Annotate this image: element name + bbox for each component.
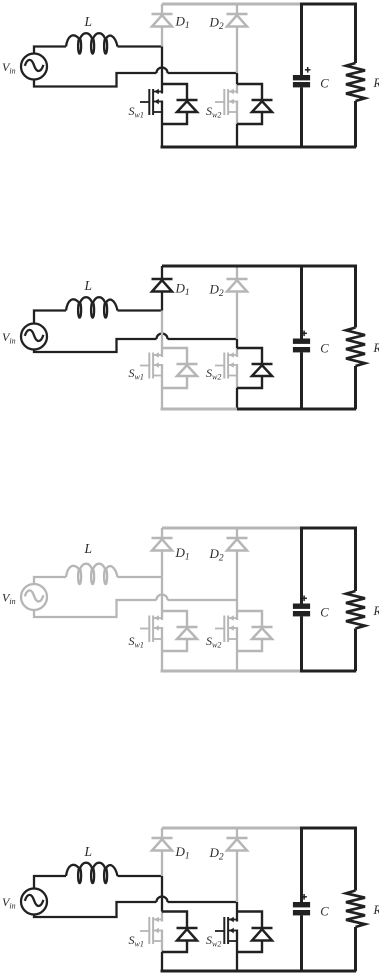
capacitor C (electrolytic) bbox=[293, 528, 310, 671]
diode D2 bbox=[227, 266, 248, 339]
wire: Sw1 source lead bbox=[161, 952, 163, 971]
svg-text:Vin: Vin bbox=[2, 330, 16, 346]
wire: inductor to node A bbox=[118, 576, 164, 578]
wire: crossover hop over Sw1 branch bbox=[157, 595, 168, 601]
wire: top rail capacitor node to load bbox=[300, 3, 357, 6]
diode D1 bbox=[152, 4, 173, 47]
wire: crossover hop over Sw1 branch bbox=[157, 334, 168, 340]
wire: bottom rail capacitor node to load bbox=[300, 408, 356, 411]
inductor L bbox=[66, 863, 118, 883]
wire: hop to node B bbox=[168, 901, 238, 903]
svg-text:C: C bbox=[320, 606, 329, 620]
label R bbox=[373, 903, 379, 917]
label D2 bbox=[209, 282, 224, 300]
diode D2 bbox=[227, 828, 248, 902]
inductor L bbox=[66, 297, 118, 317]
wire: top rail D1 to D2 bbox=[162, 265, 237, 268]
wire: Sw1 source lead bbox=[161, 388, 163, 409]
wire: top rail capacitor node to load bbox=[300, 527, 357, 530]
svg-text:Sw1: Sw1 bbox=[129, 634, 144, 650]
wire: source bottom with step bbox=[34, 600, 157, 617]
wire: inductor to node A bbox=[118, 875, 164, 877]
label L bbox=[84, 14, 93, 29]
wire: top rail D2 to capacitor node bbox=[237, 3, 302, 6]
label Vin bbox=[2, 895, 16, 911]
AC source Vin bbox=[21, 584, 47, 610]
label L bbox=[84, 844, 93, 859]
svg-text:D2: D2 bbox=[209, 546, 224, 564]
body diode of Sw2 bbox=[237, 348, 273, 388]
svg-text:D1: D1 bbox=[175, 545, 190, 563]
svg-text:C: C bbox=[320, 77, 329, 91]
resistor R (load) bbox=[346, 4, 365, 147]
capacitor C (electrolytic) bbox=[293, 266, 310, 409]
label D2 bbox=[209, 845, 224, 863]
wire: bottom rail Sw2 to capacitor node bbox=[237, 408, 302, 411]
wire: source bottom with step bbox=[34, 902, 157, 917]
wire: hop to node B bbox=[168, 599, 238, 601]
wire: source top to inductor bbox=[34, 47, 66, 54]
label L bbox=[84, 541, 93, 556]
wire: bottom rail Sw1 to Sw2 bbox=[161, 408, 238, 411]
wire: bottom rail Sw1 to Sw2 bbox=[161, 670, 238, 673]
diode D1 bbox=[152, 266, 173, 311]
wire: source top to inductor bbox=[34, 876, 66, 889]
svg-text:D1: D1 bbox=[175, 14, 190, 32]
wire: hop to node B bbox=[168, 338, 238, 340]
label L bbox=[84, 278, 93, 293]
label R bbox=[373, 341, 379, 355]
resistor R (load) bbox=[346, 266, 365, 409]
wire: Sw2 source lead bbox=[236, 651, 238, 671]
svg-text:C: C bbox=[320, 342, 329, 356]
wire: hop to node B bbox=[168, 72, 238, 74]
wire: Sw2 source lead bbox=[236, 388, 238, 409]
wire: bottom rail Sw1 to Sw2 bbox=[161, 146, 238, 149]
wire: top rail D2 to capacitor node bbox=[237, 527, 302, 530]
label D2 bbox=[209, 546, 224, 564]
diode D1 bbox=[152, 528, 173, 577]
label Vin bbox=[2, 591, 16, 607]
label Sw1 bbox=[129, 634, 144, 650]
wire: bottom rail capacitor node to load bbox=[300, 670, 356, 673]
diode D2 bbox=[227, 528, 248, 600]
wire: inductor to node A bbox=[118, 309, 164, 311]
wire: source bottom with step bbox=[34, 339, 157, 352]
label D1 bbox=[175, 281, 190, 299]
transistor Sw2 (MOSFET) bbox=[215, 348, 237, 388]
svg-text:Sw1: Sw1 bbox=[129, 104, 144, 120]
wire: bottom rail Sw1 to Sw2 bbox=[161, 970, 238, 973]
resistor R (load) bbox=[346, 828, 365, 971]
svg-text:D2: D2 bbox=[209, 282, 224, 300]
capacitor C (electrolytic) bbox=[293, 4, 310, 147]
wire: Sw1 source lead bbox=[161, 124, 163, 147]
body diode of Sw2 bbox=[237, 912, 273, 953]
label Sw1 bbox=[129, 933, 144, 949]
wire: top rail D2 to capacitor node bbox=[237, 265, 302, 268]
label Sw1 bbox=[129, 104, 144, 120]
label D1 bbox=[175, 545, 190, 563]
svg-text:L: L bbox=[84, 844, 93, 859]
wire: Sw2 drain lead bbox=[236, 902, 238, 912]
wire: Sw2 drain lead bbox=[236, 339, 238, 348]
polarity plus sign of C bbox=[305, 67, 311, 73]
svg-text:R: R bbox=[373, 903, 379, 917]
svg-text:R: R bbox=[373, 604, 379, 618]
wire: bottom rail Sw2 to capacitor node bbox=[237, 670, 302, 673]
svg-text:L: L bbox=[84, 14, 93, 29]
wire: Sw2 source lead bbox=[236, 124, 238, 147]
transistor Sw2 (MOSFET) bbox=[215, 912, 237, 953]
wire: bottom rail capacitor node to load bbox=[300, 146, 356, 149]
diode D2 bbox=[227, 4, 248, 73]
svg-text:Sw1: Sw1 bbox=[129, 933, 144, 949]
label Sw2 bbox=[206, 104, 221, 120]
svg-text:Sw2: Sw2 bbox=[206, 634, 221, 650]
transistor Sw1 (MOSFET) bbox=[140, 348, 162, 388]
resistor R (load) bbox=[346, 528, 365, 671]
body diode of Sw1 bbox=[162, 348, 198, 388]
wire: top rail D1 to D2 bbox=[162, 3, 237, 6]
label Sw2 bbox=[206, 933, 221, 949]
transistor Sw1 (MOSFET) bbox=[140, 84, 162, 124]
wire: top rail capacitor node to load bbox=[300, 265, 357, 268]
svg-text:D1: D1 bbox=[175, 281, 190, 299]
transistor Sw1 (MOSFET) bbox=[140, 611, 162, 651]
wire: Sw1 drain lead bbox=[161, 577, 163, 611]
svg-text:Vin: Vin bbox=[2, 895, 16, 911]
label R bbox=[373, 76, 379, 90]
wire: top rail D1 to D2 bbox=[162, 827, 237, 830]
wire: source bottom with step bbox=[34, 73, 157, 87]
wire: Sw1 source lead bbox=[161, 651, 163, 671]
body diode of Sw1 bbox=[162, 84, 198, 124]
body diode of Sw1 bbox=[162, 912, 198, 953]
wire: top rail capacitor node to load bbox=[300, 827, 357, 830]
label D1 bbox=[175, 14, 190, 32]
label C bbox=[320, 77, 329, 91]
label C bbox=[320, 905, 329, 919]
wire: crossover hop over Sw1 branch bbox=[157, 68, 168, 74]
svg-text:Sw2: Sw2 bbox=[206, 104, 221, 120]
wire: bottom rail capacitor node to load bbox=[300, 970, 356, 973]
wire: source top to inductor bbox=[34, 577, 66, 584]
wire: inductor to node A bbox=[118, 45, 164, 47]
svg-text:C: C bbox=[320, 905, 329, 919]
transistor Sw2 (MOSFET) bbox=[215, 611, 237, 651]
svg-text:Sw2: Sw2 bbox=[206, 933, 221, 949]
AC source Vin bbox=[21, 54, 47, 80]
wire: bottom rail Sw2 to capacitor node bbox=[237, 146, 302, 149]
AC source Vin bbox=[21, 324, 47, 350]
wire: Sw1 drain lead bbox=[161, 47, 163, 85]
polarity plus sign of C bbox=[301, 596, 307, 602]
transistor Sw1 (MOSFET) bbox=[140, 912, 162, 953]
body diode of Sw1 bbox=[162, 611, 198, 651]
label Vin bbox=[2, 330, 16, 346]
label R bbox=[373, 604, 379, 618]
inductor L bbox=[66, 33, 118, 53]
wire: bottom rail Sw2 to capacitor node bbox=[237, 970, 302, 973]
label Sw2 bbox=[206, 634, 221, 650]
svg-text:D2: D2 bbox=[209, 845, 224, 863]
wire: source top to inductor bbox=[34, 311, 66, 324]
polarity plus sign of C bbox=[301, 894, 307, 900]
wire: top rail D2 to capacitor node bbox=[237, 827, 302, 830]
wire: Sw1 drain lead bbox=[161, 876, 163, 912]
wire: Sw1 drain lead bbox=[161, 311, 163, 349]
body diode of Sw2 bbox=[237, 84, 273, 124]
svg-text:D1: D1 bbox=[175, 844, 190, 862]
label D1 bbox=[175, 844, 190, 862]
svg-text:Sw1: Sw1 bbox=[129, 366, 144, 382]
wire: Sw2 drain lead bbox=[236, 73, 238, 84]
wire: crossover hop over Sw1 branch bbox=[157, 897, 168, 903]
label Sw2 bbox=[206, 366, 221, 382]
label C bbox=[320, 606, 329, 620]
svg-text:R: R bbox=[373, 341, 379, 355]
svg-text:L: L bbox=[84, 278, 93, 293]
wire: Sw2 drain lead bbox=[236, 600, 238, 611]
polarity plus sign of C bbox=[301, 331, 307, 337]
svg-text:D2: D2 bbox=[209, 15, 224, 33]
label Vin bbox=[2, 60, 16, 76]
AC source Vin bbox=[21, 889, 47, 915]
label D2 bbox=[209, 15, 224, 33]
capacitor C (electrolytic) bbox=[293, 828, 310, 971]
svg-text:Vin: Vin bbox=[2, 591, 16, 607]
wire: Sw2 source lead bbox=[236, 952, 238, 971]
label Sw1 bbox=[129, 366, 144, 382]
svg-text:R: R bbox=[373, 76, 379, 90]
wire: top rail D1 to D2 bbox=[162, 527, 237, 530]
inductor L bbox=[66, 564, 118, 584]
diode D1 bbox=[152, 828, 173, 876]
svg-text:Sw2: Sw2 bbox=[206, 366, 221, 382]
label C bbox=[320, 342, 329, 356]
svg-text:L: L bbox=[84, 541, 93, 556]
body diode of Sw2 bbox=[237, 611, 273, 651]
transistor Sw2 (MOSFET) bbox=[215, 84, 237, 124]
svg-text:Vin: Vin bbox=[2, 60, 16, 76]
